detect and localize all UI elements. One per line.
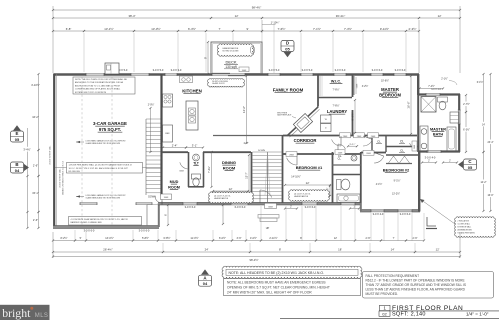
svg-text:ANCHOR BOLTS AT 72 O.C. AND MA: ANCHOR BOLTS AT 72 O.C. AND MAX 12 FROM <box>75 84 120 87</box>
bedroom2 front wall <box>360 210 420 213</box>
svg-text:3'-6": 3'-6" <box>237 237 242 240</box>
svg-text:3-0 X 6-0: 3-0 X 6-0 <box>372 68 383 72</box>
svg-text:GLASS DOOR: GLASS DOOR <box>212 82 225 85</box>
svg-text:13'-0½": 13'-0½" <box>105 236 114 240</box>
svg-text:UP: UP <box>266 226 270 230</box>
mud dining dims <box>211 152 213 187</box>
section badge D/05 <box>281 41 294 52</box>
wic closet rod <box>319 76 321 96</box>
sliding door cloud note <box>208 78 245 87</box>
svg-text:HEADER ABOVE: HEADER ABOVE <box>214 197 229 200</box>
svg-text:NOTE: ALL BEDROOMS MUST HAVE A: NOTE: ALL BEDROOMS MUST HAVE AN EMERGENC… <box>227 281 326 285</box>
svg-text:8'-5½": 8'-5½" <box>351 113 355 121</box>
svg-text:4'-10½": 4'-10½" <box>31 83 40 87</box>
svg-text:REF: REF <box>165 133 170 135</box>
svg-text:CL: CL <box>377 140 381 144</box>
WIC-laundry right wall <box>352 74 354 97</box>
svg-text:7'-6½": 7'-6½" <box>332 88 339 92</box>
svg-text:2'-7½": 2'-7½" <box>463 102 470 106</box>
note box fall protection <box>363 272 494 299</box>
svg-text:4 CONCRETE SLAB WATER SLOPE TO: 4 CONCRETE SLAB WATER SLOPE TO FRONT 1-2… <box>71 218 129 221</box>
fireplace diagonal <box>293 114 312 133</box>
closet walls right of corridor <box>371 136 373 152</box>
bath inner wall <box>332 174 361 176</box>
svg-text:D: D <box>286 41 289 46</box>
svg-text:DOWN: DOWN <box>148 196 156 199</box>
svg-text:11'-0½": 11'-0½" <box>190 236 198 240</box>
header cloud dining <box>209 192 254 203</box>
left badges <box>11 131 24 142</box>
svg-text:DOWN: DOWN <box>258 150 265 152</box>
svg-text:DINING: DINING <box>222 160 236 165</box>
svg-text:12': 12' <box>436 248 440 252</box>
svg-text:16'-6": 16'-6" <box>487 194 493 197</box>
svg-text:8'-2½": 8'-2½" <box>60 236 67 240</box>
top exterior wall <box>54 73 419 76</box>
svg-text:12': 12' <box>229 187 233 191</box>
svg-text:2'-11½": 2'-11½" <box>269 236 277 240</box>
svg-text:MUST BE PROVIDED.: MUST BE PROVIDED. <box>366 292 399 296</box>
note box egress <box>224 279 361 296</box>
master closet doors <box>353 76 355 95</box>
svg-text:HEADER ABOVE: HEADER ABOVE <box>294 195 309 198</box>
svg-text:3-0 X 6-0: 3-0 X 6-0 <box>395 68 406 72</box>
master bath right wall <box>458 94 460 152</box>
front entry steps <box>258 215 279 219</box>
svg-text:13'-1½": 13'-1½" <box>104 27 113 31</box>
svg-text:3-0 X 6-0: 3-0 X 6-0 <box>305 205 316 209</box>
svg-text:WOOD SCREEN WALL: WOOD SCREEN WALL <box>49 145 52 164</box>
svg-text:1/4" = 1'-0": 1/4" = 1'-0" <box>466 311 489 316</box>
svg-text:12': 12' <box>438 14 442 18</box>
svg-text:ANCHORED TO THE FOUNDATION W/: ANCHORED TO THE FOUNDATION W/ MIN. 5/8 D… <box>75 81 124 84</box>
top dimension row 1 overall <box>53 9 460 11</box>
svg-text:18': 18' <box>338 248 342 252</box>
svg-text:9'-11½": 9'-11½" <box>380 27 389 31</box>
garage stairs <box>146 118 161 120</box>
svg-text:KITCHEN: KITCHEN <box>182 89 202 94</box>
master bath toilet <box>438 97 448 102</box>
svg-text:6'-8": 6'-8" <box>66 27 72 31</box>
kitchen interior dims <box>163 147 186 149</box>
garage top note box <box>73 77 135 94</box>
front wall bedroom1 portion <box>251 202 361 205</box>
svg-text:TLT: TLT <box>193 162 199 166</box>
bottom overall dim <box>53 256 460 258</box>
fire rated wall note <box>67 163 143 174</box>
svg-text:NOTE: ALL HEADERS TO BE (2) 2X: NOTE: ALL HEADERS TO BE (2) 2X10 W/1 JAC… <box>229 271 325 275</box>
svg-text:9'-1½": 9'-1½" <box>394 179 401 183</box>
extension lines from row 3 down to wall <box>83 33 85 72</box>
svg-text:3-0 X 3-0: 3-0 X 3-0 <box>171 68 182 72</box>
door garage to mud <box>161 202 163 204</box>
svg-text:14': 14' <box>482 123 486 126</box>
svg-text:2'-4": 2'-4" <box>172 143 178 147</box>
svg-text:3-0 X 5-0: 3-0 X 5-0 <box>302 68 313 72</box>
laundry washer dryer <box>321 115 332 123</box>
svg-text:975 SQ.FT.: 975 SQ.FT. <box>99 127 121 132</box>
front wall left portion <box>158 202 251 205</box>
svg-text:5'-8½": 5'-8½" <box>142 236 149 240</box>
svg-text:7'-4¾": 7'-4¾" <box>208 166 211 173</box>
deck door label <box>239 67 249 72</box>
svg-text:CL.: CL. <box>338 158 342 161</box>
deck header note cloud <box>218 44 254 56</box>
bedroom2 closet wall <box>386 163 412 165</box>
svg-text:3-0 X 6-0: 3-0 X 6-0 <box>185 205 196 209</box>
svg-text:ROOM: ROOM <box>168 186 180 190</box>
svg-text:ROOM: ROOM <box>223 166 236 171</box>
left dim column <box>38 74 40 150</box>
svg-text:2'-6": 2'-6" <box>366 237 371 240</box>
master bath vanity sinks <box>420 126 428 152</box>
svg-text:12': 12' <box>334 237 338 240</box>
svg-text:24" MIN WIDTH 20" MAX. SILL HE: 24" MIN WIDTH 20" MAX. SILL HEIGHT 44" O… <box>227 291 312 295</box>
window bath right wall <box>458 110 461 124</box>
svg-text:15'-1": 15'-1" <box>32 191 39 195</box>
svg-text:02: 02 <box>382 311 387 316</box>
master bath door <box>410 143 418 149</box>
svg-text:3-0 X 6-0: 3-0 X 6-0 <box>335 68 346 72</box>
svg-text:2 INSULATION: 2 INSULATION <box>458 220 470 223</box>
svg-text:04: 04 <box>203 281 208 286</box>
svg-text:98'-4½": 98'-4½" <box>252 6 261 10</box>
svg-text:36'-4¾": 36'-4¾" <box>336 14 345 18</box>
svg-text:NOTED 2X10 BM: NOTED 2X10 BM <box>223 50 239 52</box>
master bath shower <box>421 97 436 113</box>
bath-bedroom2 wall <box>360 152 362 203</box>
svg-text:7'-3½": 7'-3½" <box>344 27 352 31</box>
master bath top wall <box>418 93 460 95</box>
svg-text:FALL PROTECTION REQUIREMENT: FALL PROTECTION REQUIREMENT <box>366 274 420 278</box>
svg-text:3-0 X 4-0: 3-0 X 4-0 <box>373 212 384 216</box>
svg-text:98'-4½": 98'-4½" <box>249 258 258 262</box>
corridor dims <box>348 145 357 147</box>
svg-text:13'-7": 13'-7" <box>246 172 249 178</box>
house right wall upper <box>417 74 419 95</box>
bottom dim row small segments <box>53 240 75 242</box>
svg-text:BEDROOM #1: BEDROOM #1 <box>296 165 323 170</box>
svg-text:2668: 2668 <box>414 145 416 149</box>
main stairs <box>253 151 283 153</box>
garage bottom wall <box>53 226 159 229</box>
windows top wall <box>86 73 104 76</box>
bottom dim row mid <box>53 251 163 253</box>
top dimension row 3 segments <box>53 30 84 32</box>
svg-text:05: 05 <box>468 165 473 170</box>
bedroom2 right wall <box>418 152 420 212</box>
svg-text:LAUNDRY: LAUNDRY <box>327 109 348 114</box>
header cloud bedroom1 <box>289 190 330 201</box>
fire note leader lines <box>55 166 67 168</box>
svg-text:3-0 X 6-0: 3-0 X 6-0 <box>139 229 150 233</box>
svg-text:3-0 X 6-0: 3-0 X 6-0 <box>84 229 95 233</box>
kitchen counter left <box>163 94 173 107</box>
svg-text:BEDROOM #2: BEDROOM #2 <box>383 168 410 173</box>
garage left wall <box>53 74 55 229</box>
scale mark L <box>427 217 436 226</box>
svg-text:BEDROOM: BEDROOM <box>379 93 401 98</box>
stair right wall <box>282 135 284 203</box>
porch inner line <box>146 205 148 227</box>
svg-text:3-0 X 5-0: 3-0 X 5-0 <box>153 68 164 72</box>
svg-text:CLOSET AT ALL: CLOSET AT ALL <box>458 223 471 226</box>
master bedroom left wall <box>417 95 419 152</box>
window master bath top <box>426 93 440 96</box>
svg-text:4'-0½": 4'-0½" <box>250 236 257 240</box>
svg-text:SQFT: 2,140: SQFT: 2,140 <box>392 312 426 318</box>
kitchen island <box>186 101 198 130</box>
entry porch left wall <box>158 203 160 227</box>
bottom extension lines <box>74 230 76 241</box>
garage interior vertical dim <box>167 205 169 225</box>
front door <box>260 190 272 198</box>
right side dims <box>465 95 467 112</box>
svg-text:13'-0½": 13'-0½" <box>151 27 160 31</box>
svg-text:3'-4½": 3'-4½" <box>23 148 30 152</box>
laundry right wall <box>352 110 354 135</box>
svg-text:13'-2½": 13'-2½" <box>392 192 400 196</box>
svg-text:3-CAR GARAGE: 3-CAR GARAGE <box>93 121 127 126</box>
garage door note lower <box>76 196 84 198</box>
corridor top wall <box>283 135 340 137</box>
svg-text:bright: bright <box>2 306 31 320</box>
svg-text:OPENING OF MIN. 5.7 SQ.FT. NET: OPENING OF MIN. 5.7 SQ.FT. NET CLEAR OPE… <box>227 286 330 290</box>
svg-text:MLS: MLS <box>35 313 49 319</box>
corridor top wall left thin <box>213 135 287 137</box>
svg-text:CL: CL <box>400 140 404 144</box>
title block <box>380 305 391 310</box>
svg-text:26'-4¾": 26'-4¾" <box>103 248 112 252</box>
svg-text:130 sqft: 130 sqft <box>225 65 236 69</box>
svg-text:1-HOUR FIRE RATED WALL (2) 2X4: 1-HOUR FIRE RATED WALL (2) 2X4 BOTH GARA… <box>69 164 132 167</box>
bedroom2 left step wall <box>360 203 362 211</box>
master bath linen shelves <box>450 112 459 123</box>
svg-text:GLASS PANELS AND TWO ROW WINDO: GLASS PANELS AND TWO ROW WINDOWS <box>86 196 121 199</box>
bright MLS logo <box>0 305 50 320</box>
garage door note upper <box>76 141 84 143</box>
svg-text:EXTERIOR WALL: EXTERIOR WALL <box>458 226 472 229</box>
svg-text:GAS FIREPLACE: GAS FIREPLACE <box>277 114 292 117</box>
svg-text:1'-10¾": 1'-10¾" <box>271 21 280 25</box>
svg-text:GLASS PANELS AND TWO ROW WINDO: GLASS PANELS AND TWO ROW WINDOWS <box>86 142 121 145</box>
svg-text:10'-6½": 10'-6½" <box>381 79 389 83</box>
badge A/04 <box>199 275 212 286</box>
concrete slab note <box>69 217 142 226</box>
bath doors <box>338 144 346 149</box>
svg-text:2'-6": 2'-6" <box>33 218 38 222</box>
svg-text:2'-6": 2'-6" <box>33 164 38 168</box>
svg-text:BD CEILING: BD CEILING <box>69 171 81 173</box>
svg-text:R13 AND FIRE RATED: R13 AND FIRE RATED <box>458 232 476 235</box>
svg-text:6'-8½": 6'-8½" <box>163 236 170 240</box>
svg-text:24': 24' <box>205 248 209 252</box>
svg-text:3'-1": 3'-1" <box>192 143 198 147</box>
note box headers cloud <box>222 266 362 278</box>
insulation note cloud right <box>455 217 496 237</box>
svg-text:2'-6": 2'-6" <box>413 237 418 240</box>
svg-text:THAN 72" ABOVE GRADE OR SURFAC: THAN 72" ABOVE GRADE OR SURFACE AND THE … <box>366 283 467 287</box>
svg-text:3-0 X 4-0: 3-0 X 4-0 <box>425 156 436 160</box>
TLT door arc <box>180 162 189 169</box>
kitchen sink on top wall <box>180 76 193 83</box>
svg-text:12': 12' <box>306 181 310 185</box>
svg-text:7'-6½": 7'-6½" <box>278 27 286 31</box>
svg-text:DECK: DECK <box>225 60 236 65</box>
svg-text:14'-10½": 14'-10½" <box>291 175 301 179</box>
svg-text:W.I.C.: W.I.C. <box>331 80 341 84</box>
svg-text:NOTE: THE SILL PLATE OR FLOOR: NOTE: THE SILL PLATE OR FLOOR SYSTEM SHA… <box>75 78 127 81</box>
corridor door labels and arcs <box>340 133 351 138</box>
svg-text:6-0 X 6-0: 6-0 X 6-0 <box>235 205 246 209</box>
windows front wall <box>80 202 97 205</box>
master bath tub <box>447 127 456 151</box>
window master bath bottom <box>427 150 441 153</box>
svg-text:MASTER: MASTER <box>430 128 446 132</box>
svg-text:BATH: BATH <box>433 133 444 137</box>
diagonal fireplace wall <box>287 107 318 136</box>
stair left wall <box>251 152 253 203</box>
svg-text:7'-6½": 7'-6½" <box>332 104 339 108</box>
svg-text:05: 05 <box>15 137 20 142</box>
svg-text:05: 05 <box>285 46 290 51</box>
corridor bottom wall <box>162 151 188 153</box>
TLT fixtures <box>193 154 200 161</box>
WIC bottom wall <box>318 97 352 99</box>
svg-text:3-0 X 6-0: 3-0 X 6-0 <box>400 212 411 216</box>
svg-text:12': 12' <box>235 14 239 18</box>
svg-text:14'-6": 14'-6" <box>242 106 246 113</box>
svg-text:ASSEMBLIES MIN: ASSEMBLIES MIN <box>458 229 473 232</box>
garage-kitchen dividing wall <box>160 74 162 196</box>
svg-text:EXTEND MIN 7 INTO CONCRETE: EXTEND MIN 7 INTO CONCRETE <box>75 92 107 94</box>
svg-text:WOOD SCREEN WALL: WOOD SCREEN WALL <box>59 168 62 187</box>
svg-text:LESS THAN 18" ABOVE FINISHED F: LESS THAN 18" ABOVE FINISHED FLOOR, AN A… <box>366 288 466 292</box>
svg-text:BARRIER UNDER 4 GRAVEL BED: BARRIER UNDER 4 GRAVEL BED <box>71 221 103 224</box>
svg-text:2'-3½": 2'-3½" <box>409 27 417 31</box>
svg-text:7'-1½": 7'-1½" <box>313 27 321 31</box>
garage dashed centerlines <box>81 77 83 225</box>
svg-text:16 O.C. W/ 5/8 TYPE X GYP. BD.: 16 O.C. W/ 5/8 TYPE X GYP. BD. EACH SIDE… <box>69 167 129 170</box>
svg-text:B: B <box>15 162 18 167</box>
deck outline <box>211 42 262 75</box>
svg-text:16'-6": 16'-6" <box>407 101 411 108</box>
chimney bump on garage top wall <box>105 63 119 74</box>
bath closet wall <box>332 164 361 166</box>
badge C/05 <box>464 159 477 170</box>
svg-text:CL: CL <box>400 149 404 153</box>
deck post ellipse <box>250 46 254 54</box>
svg-text:CORRIDOR: CORRIDOR <box>294 138 317 143</box>
svg-text:MASTER: MASTER <box>381 87 399 92</box>
svg-text:23'-4": 23'-4" <box>487 141 493 144</box>
svg-text:6'-3½": 6'-3½" <box>463 128 470 132</box>
bedroom1-bath wall <box>332 152 334 203</box>
svg-text:E: E <box>16 131 19 136</box>
master bath bottom wall <box>418 150 460 152</box>
svg-text:14': 14' <box>391 248 395 252</box>
svg-text:R612.2 - IF THE LOWEST PART OF: R612.2 - IF THE LOWEST PART OF OPERABLE … <box>366 279 465 283</box>
family room - WIC wall <box>317 74 319 107</box>
svg-text:14'-2": 14'-2" <box>480 181 486 184</box>
svg-text:MUD: MUD <box>170 180 179 184</box>
svg-text:6'-3½": 6'-3½" <box>188 27 196 31</box>
svg-text:04: 04 <box>15 168 20 173</box>
svg-text:3-0 X 5-0: 3-0 X 5-0 <box>269 68 280 72</box>
deck side dim <box>207 42 209 74</box>
svg-text:16'-2": 16'-2" <box>32 115 39 119</box>
top dimension row 2 <box>53 17 211 19</box>
svg-text:6'-0½": 6'-0½" <box>219 236 226 240</box>
sliding door at deck <box>212 73 245 76</box>
svg-text:38'-4": 38'-4" <box>128 14 135 18</box>
mud-TLT walls <box>188 152 190 187</box>
svg-text:GARAGE UNHEATED SPACE 21-0 X 2: GARAGE UNHEATED SPACE 21-0 X 21-0 <box>62 161 65 195</box>
svg-text:FAMILY ROOM: FAMILY ROOM <box>273 88 304 93</box>
bedroom doors from corridor <box>287 158 297 165</box>
